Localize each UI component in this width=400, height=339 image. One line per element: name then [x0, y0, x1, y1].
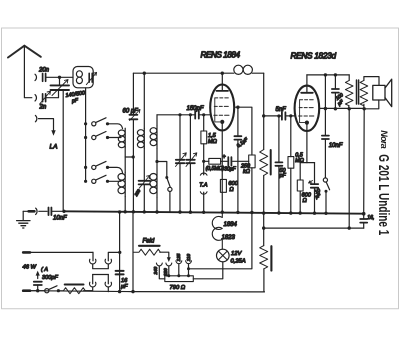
- power transformer winding bottom-left: [92, 275, 94, 284]
- mains terminal bottom: [23, 290, 45, 292]
- wire U1 screen line: [234, 107, 252, 155]
- svg-text:μF: μF: [120, 284, 128, 290]
- junction bus/140-500: [62, 210, 65, 213]
- svg-text:10nF: 10nF: [53, 216, 67, 222]
- svg-text:5nF: 5nF: [276, 107, 287, 113]
- wire U1 anode to top bus: [221, 73, 223, 91]
- svg-text:60 pF: 60 pF: [123, 109, 139, 115]
- capacitor C 150pF: [195, 111, 199, 119]
- padder capacitor: [139, 181, 150, 185]
- wire grid2 line: [264, 115, 295, 117]
- resistor R 0.5M grid2: [289, 114, 292, 117]
- switch tone: [323, 178, 327, 182]
- variable capacitor tuning gang 1: [178, 113, 181, 116]
- wire 20n to node: [46, 76, 73, 78]
- variable capacitor tuning gang 2: [189, 113, 192, 116]
- wire ground to plug: [23, 210, 34, 212]
- loudspeaker: [373, 85, 385, 100]
- svg-text:Ω: Ω: [303, 198, 308, 204]
- output transformer secondary: [360, 80, 368, 105]
- tube U2 anode bar: [301, 92, 313, 94]
- svg-text:MΩ: MΩ: [208, 139, 218, 145]
- wire feld vertical: [132, 212, 134, 292]
- svg-text:+: +: [222, 154, 226, 160]
- wire U2 anode to top line: [306, 75, 308, 93]
- svg-text:300pF: 300pF: [42, 275, 58, 281]
- plug socket ground: [36, 208, 37, 214]
- plug socket LA: [35, 115, 36, 121]
- antenna coil loops: [76, 71, 82, 77]
- svg-text:16,: 16,: [367, 215, 374, 221]
- inductor L3: [137, 128, 144, 148]
- inductor L5: [150, 162, 157, 198]
- inductor L2 lower: [118, 172, 125, 196]
- bottom bus: [30, 291, 264, 292]
- capacitor C 10uF electrolytic: [314, 163, 316, 184]
- power transformer middle link: [93, 274, 109, 276]
- screen line U2 to transformer: [319, 107, 364, 109]
- wave switch contacts row2: [84, 132, 121, 140]
- fuse resistor: [58, 288, 92, 294]
- wire node down to tuning cap top: [59, 77, 61, 85]
- svg-text:0,25A: 0,25A: [231, 259, 246, 265]
- wire 60pF to bus: [132, 119, 134, 212]
- capacitor C 16uF: [116, 271, 124, 275]
- wave switch contacts row1: [84, 118, 123, 129]
- inductor L4: [150, 126, 157, 148]
- tube U2 grid dashes: [300, 99, 314, 101]
- tube U1 internal lead: [215, 98, 220, 122]
- output transformer primary: [348, 75, 350, 81]
- capacitor C 0.1uF: [237, 107, 239, 136]
- capacitor C 100pF: [334, 75, 336, 89]
- wire antenna downlead: [24, 46, 31, 98]
- cathode node U2: [300, 162, 314, 164]
- wire L5 to bus: [156, 198, 158, 212]
- band switch: [165, 176, 168, 179]
- trimmer capacitor in coil box: [89, 73, 92, 82]
- wire junction to band switch: [157, 162, 167, 177]
- svg-text:kΩ: kΩ: [243, 169, 250, 175]
- mains switch: [45, 289, 49, 293]
- mains terminal top: [23, 251, 93, 253]
- output transformer core: [357, 80, 359, 104]
- wire secondary bottom to bus end: [363, 109, 366, 214]
- heater chain symbol: [212, 213, 222, 249]
- pickup jack TA: [203, 161, 205, 175]
- wire 10nF to bus: [51, 210, 64, 212]
- wave switch contacts row3: [84, 161, 123, 172]
- anode top line U2: [307, 74, 349, 76]
- tube U1 RENS1884 envelope: [210, 85, 234, 131]
- capacitor C 300pF: [34, 282, 42, 285]
- svg-text:(0,5MΩ): (0,5MΩ): [206, 166, 225, 172]
- svg-text:240: 240: [153, 266, 158, 275]
- tube U2 internal lead: [300, 100, 305, 123]
- voltage arrow: [37, 274, 39, 279]
- svg-text:46 W: 46 W: [23, 264, 37, 270]
- wire LA to arrow: [39, 119, 54, 131]
- svg-text:12V: 12V: [231, 251, 242, 257]
- capacitor C 50pF: [277, 114, 280, 117]
- ground symbol: [22, 211, 24, 220]
- svg-text:20n: 20n: [38, 68, 50, 74]
- capacitor C 5nF: [282, 112, 286, 119]
- svg-text:( A: ( A: [41, 267, 48, 273]
- wire L4 to junction: [156, 148, 158, 161]
- node junction 20n/coilbox: [58, 76, 61, 79]
- wire coil box bottom to wave switch: [85, 88, 87, 182]
- svg-text:Nora: Nora: [379, 130, 389, 149]
- tube U1 cathode dot: [220, 120, 224, 124]
- svg-text:Ω: Ω: [229, 187, 234, 193]
- svg-text:2n: 2n: [39, 105, 47, 111]
- wire L3 to padder: [143, 148, 145, 179]
- svg-text:1823: 1823: [222, 235, 236, 241]
- svg-text:T.A: T.A: [199, 182, 207, 188]
- plug socket A2: [35, 95, 36, 101]
- resistor R 1.5M: [203, 115, 205, 131]
- plug socket A1: [35, 74, 36, 80]
- trimmer arrow 2n: [40, 91, 51, 104]
- tube U1 grid dashes: [215, 97, 229, 99]
- wire grid line g1: [157, 114, 210, 116]
- resistor R 600 cathode U1: [220, 179, 226, 192]
- tube U2 cathode dot: [305, 121, 309, 125]
- wire top bus corner down to 5nF node: [263, 73, 265, 116]
- wire plug to 10nF: [39, 210, 47, 212]
- wire tuning cap bottom to ground bus: [62, 90, 64, 211]
- wire 16uF vertical: [119, 212, 121, 292]
- wire primary bottom to heater bus: [348, 109, 350, 228]
- lamp 12V 0.25A: [217, 249, 230, 262]
- wire U1 cathode down: [221, 122, 223, 212]
- trimmer capacitor 60pF: [129, 115, 137, 120]
- capacitor C bus end: [360, 219, 367, 223]
- svg-text:Feld: Feld: [143, 239, 155, 245]
- antenna: [8, 46, 41, 58]
- potentiometer volume: [263, 116, 265, 150]
- svg-text:1884: 1884: [224, 222, 238, 228]
- power transformer winding bottom-right: [107, 275, 109, 284]
- svg-text:10nF: 10nF: [329, 143, 343, 149]
- svg-text:125: 125: [176, 253, 181, 261]
- antenna coil box: [73, 67, 93, 88]
- wire coil L3 riser to top bus: [143, 73, 145, 128]
- main ground bus: [64, 211, 364, 213]
- wire 2n to tuning cap: [46, 90, 59, 98]
- wire top bus left corner down: [132, 73, 134, 114]
- wire grid line corner to L4: [156, 115, 158, 126]
- resistor R 250k: [249, 155, 255, 168]
- wire 1.5M to 0.5M node: [203, 144, 205, 162]
- capacitor C 30uF electrolytic: [228, 157, 231, 165]
- capacitor C 10nF: [49, 208, 52, 216]
- capacitor C 2n: [43, 94, 46, 102]
- arrow LA: [51, 130, 55, 136]
- variable capacitor 140/500pF: [51, 85, 70, 90]
- svg-text:150pF: 150pF: [187, 106, 204, 112]
- wave switch contacts row4: [84, 175, 121, 183]
- svg-text:790 Ω: 790 Ω: [170, 285, 186, 291]
- svg-text:LA: LA: [50, 144, 58, 151]
- wire U2 cathode down: [306, 123, 308, 163]
- tube U1 anode bar: [217, 90, 229, 92]
- power transformer winding top-left: [92, 252, 94, 260]
- svg-text:30μF: 30μF: [224, 167, 236, 173]
- power transformer winding top-right: [105, 259, 111, 264]
- svg-text:RENS 1884: RENS 1884: [201, 51, 241, 60]
- capacitor C 10nF anode: [324, 75, 326, 135]
- wire L1 to L2: [124, 157, 126, 172]
- svg-text:110: 110: [186, 254, 191, 262]
- svg-text:RENS 1823d: RENS 1823d: [291, 52, 337, 61]
- heater bus: [264, 227, 364, 229]
- resistor R 790: [165, 276, 194, 282]
- resistor R 600 cathode U2: [299, 163, 301, 180]
- resistor R 0.5M horizontal: [204, 160, 209, 162]
- tap wires: [159, 267, 165, 279]
- top bus B+ line: [133, 72, 263, 74]
- svg-text:pF: pF: [279, 173, 287, 179]
- svg-text:G 201 L Undine 1: G 201 L Undine 1: [375, 154, 392, 235]
- inductor L1 upper: [118, 128, 125, 148]
- selector arrow: [167, 257, 171, 262]
- wire L1 bottom jog to 60pF line: [125, 147, 133, 157]
- voltage taps: [156, 263, 162, 266]
- wire heater tap line: [189, 214, 252, 269]
- wire lamp to 790: [193, 262, 223, 279]
- wire padder to bus: [143, 185, 145, 212]
- barretter resistor: [263, 228, 265, 246]
- capacitor C 20n: [43, 74, 46, 82]
- RF choke: [234, 65, 243, 74]
- tube U2 RENS1823d envelope: [295, 86, 320, 131]
- wire L2 to bus: [124, 197, 126, 212]
